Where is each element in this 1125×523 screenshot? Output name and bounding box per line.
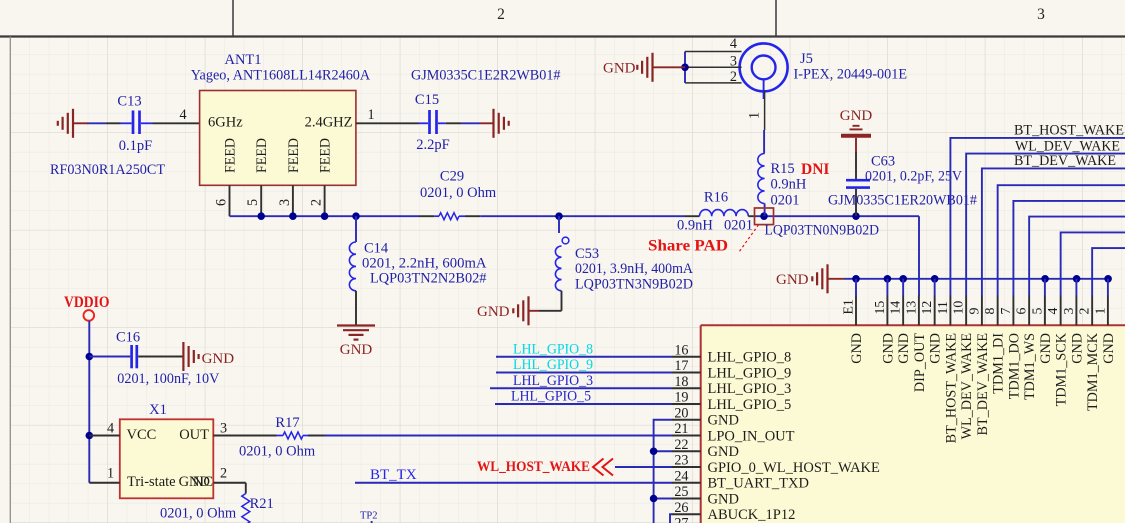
ground above C63 — [840, 108, 873, 152]
IC top pin 2 (TDM1_MCK) — [1077, 296, 1102, 412]
wire pin E1 to GND rail — [855, 279, 857, 296]
IC top pin 10 (WL_DEV_WAKE) — [951, 296, 976, 440]
svg-text:OUT: OUT — [179, 427, 209, 443]
IC left pin 23 (GPIO_0_WL_HOST_WAKE) — [672, 453, 880, 476]
svg-text:TP2: TP2 — [360, 511, 378, 522]
wire IC pin 2 to right edge net — [1092, 248, 1125, 295]
svg-text:LHL_GPIO_5: LHL_GPIO_5 — [708, 397, 792, 413]
svg-text:0201, 2.2nH, 600mA: 0201, 2.2nH, 600mA — [362, 256, 487, 272]
svg-text:20: 20 — [674, 405, 688, 421]
ground left of IC top rail — [776, 264, 844, 293]
wire C13 to ANT1 pin 4 — [153, 107, 200, 124]
svg-text:TDM1_WS: TDM1_WS — [1022, 333, 1038, 400]
IC top pin 8 (TDM1_DI) — [982, 296, 1007, 394]
IC component body (yellow, partially off-sheet) — [701, 325, 1125, 523]
svg-text:25: 25 — [674, 484, 688, 500]
X1 pin 1 — [89, 466, 120, 483]
svg-text:GND: GND — [708, 491, 739, 507]
svg-text:TDM1_MCK: TDM1_MCK — [1085, 332, 1101, 411]
IC top pin 4 (TDM1_SCK) — [1045, 296, 1070, 407]
svg-text:2: 2 — [1077, 308, 1092, 315]
svg-text:C13: C13 — [117, 94, 141, 110]
svg-text:17: 17 — [674, 358, 688, 374]
junction dots on RF bus — [257, 212, 265, 220]
wire C29 to C53 node — [480, 215, 685, 217]
IC top pin 6 (TDM1_WS) — [1014, 296, 1039, 401]
svg-text:GND: GND — [708, 413, 739, 429]
svg-text:15: 15 — [872, 301, 887, 315]
svg-text:2: 2 — [497, 6, 505, 23]
svg-text:7: 7 — [998, 308, 1013, 315]
svg-text:0201, 100nF, 10V: 0201, 100nF, 10V — [117, 371, 220, 387]
svg-text:2: 2 — [220, 466, 227, 482]
IC top pin 9 (BT_DEV_WAKE) — [966, 296, 991, 436]
svg-text:R15: R15 — [771, 161, 795, 177]
svg-text:TDM1_SCK: TDM1_SCK — [1054, 332, 1070, 406]
svg-text:0201, 0 Ohm: 0201, 0 Ohm — [239, 444, 316, 460]
J5 pin 1 wire down — [747, 90, 765, 153]
svg-text:1: 1 — [1092, 308, 1107, 315]
svg-text:LHL_GPIO_3: LHL_GPIO_3 — [513, 373, 593, 389]
svg-text:LQP03TN0N9B02D: LQP03TN0N9B02D — [765, 223, 880, 239]
inductor C53 — [555, 216, 693, 311]
svg-text:GND: GND — [1038, 333, 1054, 364]
svg-text:5: 5 — [1029, 308, 1044, 315]
svg-text:3: 3 — [220, 420, 227, 436]
svg-text:GPIO_0_WL_HOST_WAKE: GPIO_0_WL_HOST_WAKE — [708, 460, 881, 476]
wire pin 1 to GND rail — [1107, 279, 1109, 296]
svg-text:0201: 0201 — [724, 218, 753, 234]
svg-text:FEED: FEED — [286, 138, 302, 173]
svg-text:12: 12 — [919, 301, 934, 315]
wire R16 to share pad node — [748, 215, 756, 217]
net BT_TX (pin 24) — [355, 467, 672, 483]
sheet border left line — [9, 37, 11, 523]
inductor R15 (DNI) — [758, 154, 807, 217]
junction on GND rail — [1041, 275, 1049, 283]
ANT1 pin 1 — [356, 107, 419, 123]
svg-text:FEED: FEED — [318, 138, 334, 173]
svg-text:3: 3 — [730, 54, 737, 70]
wire IC pin 8 to right edge net — [998, 185, 1125, 295]
capacitor C16 — [89, 330, 220, 387]
wire pin 5 to GND rail — [1044, 279, 1046, 296]
IC left pin 22 (GND) — [672, 437, 739, 460]
svg-text:GND: GND — [849, 333, 865, 364]
svg-text:LHL_GPIO_8: LHL_GPIO_8 — [513, 341, 593, 357]
svg-text:FEED: FEED — [254, 138, 270, 173]
capacitor C63 — [828, 152, 977, 216]
svg-text:16: 16 — [674, 342, 688, 358]
resistor R21 — [160, 494, 274, 523]
IC left pin 25 (GND) — [672, 484, 739, 507]
ground under C14 — [337, 326, 375, 359]
wire pin 3 to GND rail — [1075, 279, 1077, 296]
svg-text:GJM0335C1E2R2WB01#: GJM0335C1E2R2WB01# — [411, 68, 561, 84]
IC left pin 16 (LHL_GPIO_8) — [672, 342, 791, 365]
IC left pin 26 (ABUCK_1P12) — [672, 500, 795, 523]
inductor C14 — [349, 216, 487, 325]
svg-text:GND: GND — [340, 342, 373, 358]
svg-text:0.9nH: 0.9nH — [771, 177, 807, 193]
svg-text:BT_HOST_WAKE: BT_HOST_WAKE — [1014, 123, 1124, 139]
svg-text:VDDIO: VDDIO — [64, 294, 110, 311]
svg-text:1: 1 — [107, 466, 114, 482]
svg-text:C16: C16 — [116, 330, 140, 346]
svg-text:GND: GND — [896, 333, 912, 364]
ground (left of C13) — [58, 109, 88, 138]
IC top pin 1 (GND) — [1092, 296, 1117, 364]
svg-text:GND: GND — [1101, 333, 1117, 364]
svg-text:WL_HOST_WAKE: WL_HOST_WAKE — [477, 459, 590, 475]
svg-text:3: 3 — [277, 199, 293, 206]
svg-text:4: 4 — [730, 36, 737, 52]
net LHL_GPIO_9 — [496, 357, 672, 373]
antenna ANT1 — [191, 52, 371, 185]
svg-text:Tri-state: Tri-state — [127, 474, 176, 490]
svg-text:0201: 0201 — [771, 193, 800, 209]
svg-text:23: 23 — [674, 453, 688, 469]
wire IC pin 9 to right edge net — [982, 168, 1125, 295]
svg-text:BT_DEV_WAKE: BT_DEV_WAKE — [975, 333, 991, 435]
resistor C29 (0 Ohm) — [419, 169, 497, 220]
svg-text:3: 3 — [1061, 308, 1076, 315]
net LHL_GPIO_8 — [496, 341, 672, 357]
svg-text:DIP_OUT: DIP_OUT — [912, 333, 928, 392]
IC left pin 19 (LHL_GPIO_5) — [672, 390, 791, 413]
svg-text:5: 5 — [245, 199, 261, 206]
svg-text:C53: C53 — [575, 246, 599, 262]
frame tick between zones 2/3 — [775, 0, 777, 37]
wire IC pin 10 to right edge net — [966, 154, 1125, 296]
IC left pin 21 (LPO_IN_OUT) — [672, 421, 795, 444]
IC top pin 14 (GND) — [888, 296, 913, 364]
IC top pin E1 (GND) — [841, 296, 866, 364]
svg-text:13: 13 — [903, 301, 918, 315]
svg-text:26: 26 — [674, 500, 688, 516]
svg-text:0.1pF: 0.1pF — [119, 138, 152, 154]
svg-text:LHL_GPIO_9: LHL_GPIO_9 — [708, 365, 792, 381]
svg-text:X1: X1 — [149, 402, 167, 418]
svg-text:6: 6 — [1014, 308, 1029, 315]
net WL_HOST_WAKE (pin 23) — [477, 459, 672, 476]
IC left pin 20 (GND) — [672, 405, 739, 428]
ground (right of C15) — [480, 109, 509, 138]
svg-text:FEED: FEED — [223, 138, 239, 173]
GND bracket pins 20/22/25 — [650, 420, 672, 523]
power port VDDIO — [64, 294, 110, 483]
wire pin 15 to GND rail — [886, 279, 888, 296]
svg-text:2: 2 — [309, 199, 325, 206]
svg-text:24: 24 — [674, 468, 688, 484]
svg-text:18: 18 — [674, 374, 688, 390]
GND rail wire — [844, 278, 1108, 280]
junction on GND rail — [1073, 275, 1081, 283]
svg-text:C14: C14 — [364, 241, 389, 257]
ground right of C16 — [183, 342, 234, 371]
svg-text:WL_DEV_WAKE: WL_DEV_WAKE — [1015, 138, 1120, 154]
svg-text:GJM0335C1ER20WB01#: GJM0335C1ER20WB01# — [828, 193, 977, 209]
junction on GND rail — [884, 275, 892, 283]
svg-text:LHL_GPIO_9: LHL_GPIO_9 — [513, 357, 593, 373]
IC top pin 13 (DIP_OUT) — [903, 296, 928, 393]
IC top pin 11 (BT_HOST_WAKE) — [935, 296, 960, 444]
wire IC pin 4 to right edge net — [1061, 232, 1125, 295]
svg-text:GND: GND — [202, 351, 235, 367]
X1 pin 4 — [89, 420, 120, 436]
svg-text:BT_HOST_WAKE: BT_HOST_WAKE — [943, 333, 959, 443]
svg-text:I-PEX, 20449-001E: I-PEX, 20449-001E — [794, 67, 908, 83]
svg-text:Share PAD: Share PAD — [648, 238, 728, 255]
inductor R16 — [677, 190, 753, 234]
wire down to IC pin 13 (DIP_OUT) — [918, 216, 920, 296]
svg-text:BT_UART_TXD: BT_UART_TXD — [708, 476, 809, 492]
pin 26 wire down — [670, 514, 672, 523]
svg-text:11: 11 — [935, 301, 950, 314]
ground left of C53 — [477, 296, 562, 325]
wire IC pin 7 to right edge net — [1013, 201, 1125, 296]
svg-text:DNI: DNI — [801, 161, 829, 178]
svg-text:2: 2 — [730, 69, 737, 85]
junction on GND rail — [931, 275, 939, 283]
svg-text:6GHz: 6GHz — [208, 115, 243, 131]
IC top pin 15 (GND) — [872, 296, 897, 364]
X1 pin 3 — [213, 420, 276, 436]
ANT1 pin 3 — [277, 185, 293, 216]
ANT1 pin 2 — [309, 185, 325, 216]
svg-text:R16: R16 — [704, 190, 728, 206]
svg-text:4: 4 — [179, 107, 186, 123]
svg-text:LHL_GPIO_5: LHL_GPIO_5 — [511, 389, 591, 405]
svg-text:GND: GND — [776, 272, 809, 288]
svg-text:GND: GND — [1069, 333, 1085, 364]
svg-text:6: 6 — [214, 199, 230, 206]
svg-text:TDM1_DI: TDM1_DI — [991, 333, 1007, 394]
ANT1 pin 6 — [214, 185, 230, 216]
frame tick between zones 1/2 — [232, 0, 234, 37]
svg-text:R17: R17 — [275, 415, 299, 431]
svg-text:0201, 3.9nH, 400mA: 0201, 3.9nH, 400mA — [575, 261, 693, 277]
svg-text:LQP03TN3N9B02D: LQP03TN3N9B02D — [575, 277, 693, 293]
wire RF bus under ANT1 — [230, 215, 420, 217]
svg-text:LHL_GPIO_3: LHL_GPIO_3 — [708, 381, 792, 397]
svg-text:BT_DEV_WAKE: BT_DEV_WAKE — [1014, 153, 1116, 169]
svg-text:1: 1 — [747, 112, 763, 119]
svg-text:0.9nH: 0.9nH — [677, 218, 713, 234]
svg-text:E1: E1 — [841, 299, 856, 314]
svg-text:22: 22 — [674, 437, 688, 453]
share pad box — [739, 208, 774, 252]
connector J5 — [740, 43, 908, 99]
junction on GND rail — [899, 275, 907, 283]
IC top pin 7 (TDM1_DO) — [998, 296, 1023, 400]
svg-text:TDM1_DO: TDM1_DO — [1006, 333, 1022, 399]
svg-text:10: 10 — [951, 301, 966, 315]
svg-text:27: 27 — [674, 516, 688, 523]
svg-text:9: 9 — [966, 308, 981, 315]
ANT1 pin 5 — [245, 185, 261, 216]
svg-text:VCC: VCC — [127, 427, 157, 443]
svg-text:C63: C63 — [871, 154, 895, 170]
svg-text:Yageo, ANT1608LL14R2460A: Yageo, ANT1608LL14R2460A — [191, 68, 371, 84]
svg-text:21: 21 — [674, 421, 688, 437]
IC top pin 12 (GND) — [919, 296, 944, 364]
svg-text:3: 3 — [1037, 6, 1045, 23]
svg-text:LPO_IN_OUT: LPO_IN_OUT — [708, 428, 795, 444]
ground left of J5 — [603, 53, 685, 82]
svg-text:1: 1 — [367, 107, 374, 123]
resistor R17 (0 Ohm) — [239, 415, 325, 460]
X1 pin 2 — [213, 466, 246, 494]
IC top pin 5 (GND) — [1029, 296, 1054, 364]
svg-text:14: 14 — [888, 301, 903, 315]
wire IC pin 11 to right edge net — [950, 138, 1125, 296]
net LHL_GPIO_3 — [490, 373, 672, 389]
svg-text:8: 8 — [982, 308, 997, 315]
svg-text:GND: GND — [708, 444, 739, 460]
oscillator X1 — [120, 402, 214, 498]
svg-text:LHL_GPIO_8: LHL_GPIO_8 — [708, 350, 792, 366]
svg-text:GND: GND — [928, 333, 944, 364]
svg-text:C29: C29 — [440, 169, 464, 185]
svg-text:J5: J5 — [800, 51, 813, 67]
svg-text:0201, 0 Ohm: 0201, 0 Ohm — [420, 185, 497, 201]
junction on GND rail — [852, 275, 860, 283]
svg-text:GND: GND — [477, 304, 510, 320]
svg-text:GND: GND — [880, 333, 896, 364]
svg-text:2.2pF: 2.2pF — [416, 137, 449, 153]
svg-text:ANT1: ANT1 — [224, 52, 261, 68]
svg-text:NC: NC — [193, 474, 213, 490]
svg-text:0201, 0.2pF, 25V: 0201, 0.2pF, 25V — [865, 169, 963, 185]
net LHL_GPIO_5 — [495, 389, 672, 405]
J5 pins 4,3,2 — [681, 36, 741, 85]
svg-text:BT_TX: BT_TX — [370, 467, 417, 483]
svg-text:RF03N0R1A250CT: RF03N0R1A250CT — [50, 162, 165, 178]
wire pin 14 to GND rail — [902, 279, 904, 296]
svg-text:GND: GND — [840, 108, 873, 124]
IC left pin 24 (BT_UART_TXD) — [672, 468, 809, 491]
sheet border top line — [0, 35, 1125, 37]
wire R17 to IC pin 21 — [325, 435, 673, 437]
junction on GND rail — [1104, 275, 1112, 283]
svg-text:2.4GHZ: 2.4GHZ — [305, 115, 353, 131]
capacitor C15 — [411, 68, 561, 154]
capacitor C13 — [50, 94, 165, 178]
svg-text:0201, 0 Ohm: 0201, 0 Ohm — [160, 506, 237, 522]
IC left pin 18 (LHL_GPIO_3) — [672, 374, 791, 397]
svg-text:WL_DEV_WAKE: WL_DEV_WAKE — [959, 333, 975, 439]
svg-text:LQP03TN2N2B02#: LQP03TN2N2B02# — [370, 271, 487, 287]
svg-text:GND: GND — [603, 61, 636, 77]
IC top pin 3 (GND) — [1061, 296, 1086, 364]
wire pin 12 to GND rail — [934, 279, 936, 296]
svg-text:ABUCK_1P12: ABUCK_1P12 — [708, 507, 796, 523]
svg-text:R21: R21 — [250, 496, 274, 512]
svg-text:19: 19 — [674, 390, 688, 406]
wire IC pin 6 to right edge net — [1029, 217, 1125, 296]
IC left pin 17 (LHL_GPIO_9) — [672, 358, 791, 381]
svg-text:4: 4 — [107, 420, 114, 436]
svg-text:4: 4 — [1045, 308, 1060, 315]
svg-text:C15: C15 — [415, 92, 439, 108]
